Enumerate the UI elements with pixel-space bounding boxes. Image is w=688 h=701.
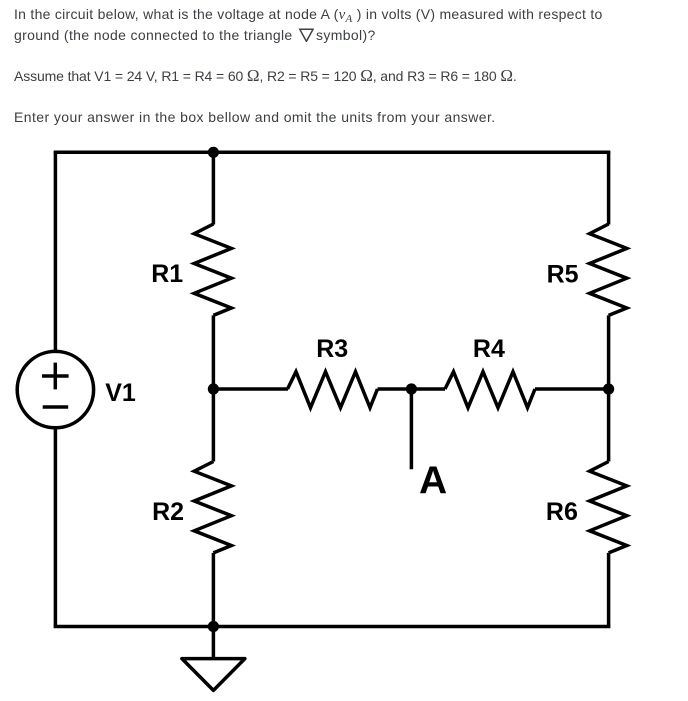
voltage source V1 plus sign vertical stroke xyxy=(54,363,58,390)
wire ground stub xyxy=(212,627,216,659)
resistor R4 xyxy=(445,372,535,408)
voltage source V1 plus sign horizontal stroke xyxy=(42,374,69,378)
wire from middle node to R2 xyxy=(212,389,216,462)
resistor R1 xyxy=(194,224,231,315)
wire from R3 to node A junction xyxy=(378,387,446,391)
voltage source V1 minus sign xyxy=(43,405,68,409)
resistor R6 xyxy=(590,462,627,553)
junction node A xyxy=(406,383,417,394)
wire middle branch from top rail to R1 xyxy=(212,152,216,224)
wire from R2 to bottom rail xyxy=(212,553,216,627)
assumptions text xyxy=(14,66,517,87)
resistor R3 xyxy=(288,372,378,408)
wire from R1 to middle node xyxy=(212,315,216,389)
svg-text:V1: V1 xyxy=(105,379,136,407)
voltage source V1 circle xyxy=(17,351,93,427)
question text line 1 xyxy=(14,4,603,26)
wire from R5 to mid-right node xyxy=(607,315,611,389)
junction bottom ground node xyxy=(208,621,219,632)
svg-text:A: A xyxy=(419,460,447,503)
junction mid-right node xyxy=(603,383,614,394)
wire right branch from top rail to R5 xyxy=(607,152,611,224)
wire from R6 to bottom rail xyxy=(607,553,611,627)
resistor R2 xyxy=(194,462,231,553)
resistor R5 xyxy=(590,224,627,315)
junction top node xyxy=(208,147,219,158)
junction middle-left node xyxy=(208,383,219,394)
wire left branch from top rail down to V1 plus terminal xyxy=(54,152,58,352)
wire top rail xyxy=(54,151,611,155)
node A stub wire xyxy=(410,389,414,469)
svg-text:R3: R3 xyxy=(316,335,348,363)
wire from middle node to R3 xyxy=(213,387,288,391)
wire from R4 to right branch xyxy=(535,387,609,391)
wire bottom rail xyxy=(54,625,611,629)
svg-text:R5: R5 xyxy=(547,260,579,288)
wire from V1 minus terminal down to bottom rail xyxy=(54,428,58,627)
wire from mid-right node to R6 xyxy=(607,389,611,462)
svg-text:R2: R2 xyxy=(152,498,184,526)
question text line 2 xyxy=(14,25,376,46)
ground symbol triangle xyxy=(182,659,245,691)
svg-text:R6: R6 xyxy=(546,498,578,526)
svg-text:R4: R4 xyxy=(473,335,505,363)
instruction text xyxy=(14,107,496,128)
svg-text:R1: R1 xyxy=(151,260,183,288)
